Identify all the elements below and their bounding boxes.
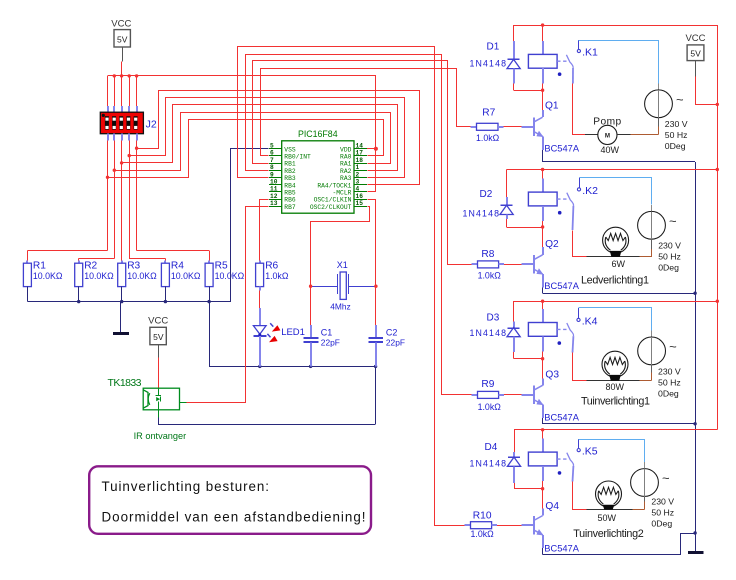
- svg-text:12: 12: [270, 193, 278, 200]
- svg-text:6: 6: [270, 150, 274, 157]
- wire collector Q1: [542, 90, 544, 110]
- svg-text:BC547A: BC547A: [544, 281, 579, 291]
- svg-text:10.0KΩ: 10.0KΩ: [33, 271, 63, 281]
- svg-text:1.0kΩ: 1.0kΩ: [476, 133, 500, 143]
- junction coil bottom block 4: [541, 487, 544, 490]
- wire PIC OSC2 to crystal left node: [311, 207, 370, 287]
- svg-text:18: 18: [356, 157, 364, 164]
- svg-text:1.0kΩ: 1.0kΩ: [478, 270, 502, 280]
- note box Tuinverlichting besturen: [89, 466, 371, 534]
- svg-text:230 V: 230 V: [665, 119, 688, 129]
- resistor R4 10.0KOhm: [164, 261, 166, 264]
- svg-text:0Deg: 0Deg: [651, 519, 672, 529]
- wire VCC3 to right rail: [696, 77, 718, 105]
- svg-text:VCC: VCC: [685, 33, 705, 44]
- resistor R1 10.0KOhm: [26, 261, 28, 264]
- svg-text:Doormiddel van een afstandbedi: Doormiddel van een afstandbediening!: [102, 510, 366, 525]
- svg-text:PIC16F84: PIC16F84: [298, 129, 338, 139]
- svg-text:230 V: 230 V: [658, 367, 681, 377]
- junction VDD: [374, 147, 378, 151]
- wire DIP pin3 to R3: [121, 141, 123, 261]
- PIC pin 14 VDD: [354, 148, 367, 150]
- svg-text:BC547A: BC547A: [544, 543, 579, 553]
- wire DIP pin5 to R5 and RA0-bundle junction: [136, 141, 138, 251]
- svg-text:Ledverlichting1: Ledverlichting1: [581, 275, 649, 287]
- svg-text:OSC1/CLKIN: OSC1/CLKIN: [314, 197, 352, 204]
- TK1833 output pin: [180, 402, 187, 404]
- svg-text:X1: X1: [337, 260, 348, 270]
- svg-text:5V: 5V: [153, 332, 164, 342]
- junction VCC3 rail: [716, 103, 719, 106]
- PIC pin 12 RB6: [269, 199, 282, 201]
- svg-text:R10: R10: [473, 510, 492, 521]
- wire DIP pin4 to R4: [129, 141, 131, 259]
- resistor R7 1.0kOhm: [470, 126, 476, 128]
- svg-text:RA1: RA1: [340, 161, 352, 168]
- relay coil K block 2: [542, 170, 544, 179]
- svg-text:Pomp: Pomp: [593, 117, 621, 128]
- wire PIC RB1 to R8: [253, 61, 472, 265]
- PIC pin 18 RA1: [354, 163, 367, 165]
- junction DIP5: [135, 147, 138, 150]
- svg-text:1N4148: 1N4148: [470, 59, 507, 69]
- svg-text:0Deg: 0Deg: [665, 141, 686, 151]
- svg-text:VCC: VCC: [148, 315, 168, 326]
- PIC pin 2 RA3: [354, 177, 367, 179]
- resistor R6 1.0kOhm: [259, 261, 261, 264]
- svg-text:RB2: RB2: [284, 168, 296, 175]
- wire ground bus block 1: [543, 161, 696, 163]
- svg-text:LED1: LED1: [281, 327, 305, 338]
- svg-text:D1: D1: [487, 42, 500, 53]
- relay coil K block 3: [542, 301, 544, 309]
- svg-text:-MCLR: -MCLR: [332, 190, 351, 197]
- switch terminal circle K block 1: [577, 49, 580, 52]
- wire DIP top pins verticals: [107, 76, 109, 106]
- transistor Q1 BC547A: [533, 118, 535, 137]
- svg-text:~: ~: [669, 339, 677, 354]
- wire switch to AC source (cyan) block 1: [578, 40, 580, 49]
- svg-text:Tuinverlichting1: Tuinverlichting1: [581, 396, 650, 408]
- svg-text:0Deg: 0Deg: [658, 389, 679, 399]
- svg-text:D3: D3: [487, 313, 500, 324]
- wire lower ground rail y=366.4: [209, 366, 376, 368]
- svg-text:VDD: VDD: [340, 146, 352, 153]
- svg-text:R9: R9: [481, 379, 494, 390]
- DIP switch windows: [105, 116, 109, 129]
- junction dots ground rail: [77, 300, 80, 303]
- svg-text:R8: R8: [481, 249, 494, 260]
- wire bundle DIP1 to PIC RA0: [108, 120, 384, 178]
- wire DIP bottom pins stubs: [107, 134, 109, 141]
- relay switch K5 block 4: [557, 458, 567, 460]
- svg-text:5V: 5V: [690, 49, 701, 59]
- svg-text:IR ontvanger: IR ontvanger: [134, 431, 187, 441]
- wire switch to AC source (cyan) block 3: [578, 308, 580, 318]
- wire TK1833 ground to lower rail: [158, 410, 160, 418]
- svg-text:.K5: .K5: [582, 446, 598, 458]
- svg-text:RA2: RA2: [340, 168, 352, 175]
- relay switch K1 block 1: [557, 60, 567, 62]
- svg-text:Q4: Q4: [545, 501, 559, 512]
- wire relay supply top rail: [514, 26, 718, 430]
- wire ground bus block 4: [543, 534, 696, 555]
- junction DIP4: [128, 154, 131, 157]
- svg-text:40W: 40W: [601, 145, 620, 155]
- svg-text:4Mhz: 4Mhz: [330, 302, 350, 312]
- wire motor to AC source: [617, 134, 630, 136]
- wire emitter ground bus vertical: [695, 162, 697, 533]
- wire ground rail y=301.6: [27, 301, 230, 303]
- svg-text:1N4148: 1N4148: [470, 459, 507, 469]
- svg-text:16: 16: [356, 193, 364, 200]
- resistor R2 10.0KOhm: [78, 261, 80, 264]
- svg-text:VSS: VSS: [284, 146, 296, 153]
- PIC pin 4 -MCLR: [354, 191, 367, 193]
- junction coil bottom block 2: [541, 225, 544, 228]
- PIC pin 11 RB5: [269, 191, 282, 193]
- svg-text:15: 15: [356, 200, 364, 207]
- switch pivot dot block 3: [558, 341, 562, 345]
- svg-text:1N4148: 1N4148: [463, 209, 500, 219]
- svg-text:230 V: 230 V: [651, 497, 674, 507]
- wire switch bottom to load block 2: [572, 206, 575, 230]
- wire R6 to LED1: [259, 290, 261, 308]
- wire bundle DIP2 to PIC RA1: [115, 113, 391, 171]
- wire switch bottom to load block 4: [572, 466, 575, 482]
- wire collector Q2: [542, 227, 544, 247]
- capacitor C2 22pF: [375, 286, 377, 325]
- svg-text:Q1: Q1: [545, 101, 559, 112]
- ground GND1: [120, 302, 122, 333]
- PIC pin 17 RA0: [354, 155, 367, 157]
- junction dots ground bus: [693, 292, 696, 295]
- wire AC source bottom block 3: [651, 365, 653, 373]
- resistor R8 1.0kOhm: [471, 263, 477, 265]
- svg-text:C2: C2: [386, 327, 398, 337]
- relay coil K block 4: [542, 430, 544, 439]
- svg-text:6W: 6W: [612, 259, 626, 269]
- wire VCC rail y=75.4: [108, 75, 376, 77]
- capacitor C1 22pF: [310, 286, 312, 325]
- junction coil top block 2: [541, 168, 544, 171]
- svg-text:.K2: .K2: [582, 185, 598, 197]
- lamp 50W block 4: [573, 509, 587, 511]
- wire collector Q4: [542, 489, 544, 509]
- PIC pin 15 OSC2/CLKOUT: [354, 206, 367, 208]
- svg-text:17: 17: [356, 150, 364, 157]
- transistor Q4 BC547A: [533, 516, 535, 535]
- resistor R3 10.0KOhm: [121, 261, 123, 264]
- svg-text:0Deg: 0Deg: [658, 263, 679, 273]
- wire VCC rail to VDD and -MCLR: [368, 76, 376, 192]
- resistor R9 1.0kOhm: [471, 394, 477, 396]
- svg-text:~: ~: [676, 92, 684, 107]
- svg-text:1.0kΩ: 1.0kΩ: [478, 402, 502, 412]
- wire TK1833 output to PIC RB7: [187, 207, 269, 403]
- junction dots right rail: [541, 23, 544, 26]
- AC source V3 230V: [638, 337, 666, 365]
- svg-text:RB7: RB7: [284, 204, 296, 211]
- svg-text:8: 8: [270, 164, 274, 171]
- svg-text:22pF: 22pF: [386, 337, 405, 347]
- junction coil top block 3: [541, 300, 544, 303]
- svg-text:1N4148: 1N4148: [470, 328, 507, 338]
- svg-text:13: 13: [270, 200, 278, 207]
- PIC pin 7 RB1: [269, 163, 282, 165]
- svg-text:1.0kΩ: 1.0kΩ: [265, 271, 289, 281]
- svg-text:Q2: Q2: [545, 239, 559, 250]
- wire AC source bottom block 1: [658, 118, 660, 127]
- svg-text:VCC: VCC: [111, 18, 131, 29]
- wire PIC RB0 to R7: [261, 69, 471, 156]
- junction dots lower rail: [258, 365, 261, 368]
- svg-text:RB6: RB6: [284, 197, 296, 204]
- svg-text:C1: C1: [321, 327, 333, 337]
- relay coil K block 1: [542, 25, 544, 41]
- LED LED1: [253, 325, 266, 327]
- svg-text:50 Hz: 50 Hz: [651, 508, 674, 518]
- svg-text:50 Hz: 50 Hz: [658, 378, 681, 388]
- wire PIC RB6 to R6: [260, 200, 269, 261]
- svg-text:J2: J2: [146, 118, 157, 130]
- wire emitter Q1 to ground bus: [542, 136, 544, 149]
- wire relay rail block 4: [514, 429, 717, 431]
- switch pivot dot block 4: [558, 471, 562, 475]
- wire emitter Q4 to ground bus: [542, 535, 544, 548]
- wire VCC2 to TK1833: [158, 358, 160, 389]
- wire DIP pin2 to R2: [114, 141, 116, 259]
- svg-text:RB3: RB3: [284, 175, 296, 182]
- svg-text:10.0KΩ: 10.0KΩ: [215, 271, 245, 281]
- wire VDD pin to rail vertical: [367, 148, 376, 150]
- motor M1 Pomp 40W: [585, 134, 598, 136]
- wire ground bus block 2: [543, 293, 696, 295]
- diode D1 1N4148: [513, 25, 515, 41]
- svg-text:14: 14: [356, 143, 364, 150]
- wire PIC OSC1 to crystal right node: [368, 200, 376, 287]
- svg-text:10.0KΩ: 10.0KΩ: [171, 271, 201, 281]
- wire bundle DIP5 to PIC RA4: [137, 91, 420, 185]
- wire switch to AC source (cyan) block 4: [578, 439, 580, 448]
- svg-text:RA4/TOCK1: RA4/TOCK1: [317, 182, 351, 189]
- svg-text:M: M: [605, 133, 610, 140]
- resistor R5 10.0KOhm: [208, 261, 210, 264]
- lamp 6W block 2: [573, 256, 587, 258]
- svg-text:Q3: Q3: [545, 369, 559, 380]
- diode D3 1N4148: [513, 301, 515, 321]
- svg-text:RA3: RA3: [340, 175, 352, 182]
- transistor Q3 BC547A: [533, 386, 535, 405]
- ground GND2 (bottom right): [695, 533, 697, 552]
- svg-text:11: 11: [270, 186, 278, 193]
- junction DIP1: [106, 176, 109, 179]
- PIC pin 6 RB0/INT: [269, 155, 282, 157]
- junction crystal right: [374, 285, 377, 288]
- svg-text:BC547A: BC547A: [544, 413, 579, 423]
- wire bundle DIP4 to PIC RA3: [130, 98, 405, 178]
- junction DIP2: [113, 169, 116, 172]
- wire relay rail block 2: [507, 169, 718, 171]
- PIC pin 13 RB7: [269, 206, 282, 208]
- wire VCC1 to rail: [121, 61, 123, 75]
- wire PIC RB2 to R9: [246, 55, 472, 395]
- wire AC source bottom block 2: [651, 239, 653, 249]
- svg-text:3: 3: [356, 179, 360, 186]
- svg-text:~: ~: [662, 471, 670, 486]
- AC source V1 230V: [645, 90, 673, 118]
- wire R5 bottom to lower rail: [209, 302, 211, 367]
- AC source V2 230V: [638, 211, 666, 239]
- wire D1 bottom to coil bottom: [514, 90, 543, 92]
- junction coil bottom block 1: [541, 89, 544, 92]
- relay switch K4 block 3: [557, 328, 567, 330]
- svg-text:RB0/INT: RB0/INT: [284, 154, 311, 161]
- svg-text:TK1833: TK1833: [108, 377, 142, 389]
- svg-text:RB5: RB5: [284, 190, 296, 197]
- transistor Q2 BC547A: [533, 255, 535, 274]
- PIC pin 9 RB3: [269, 177, 282, 179]
- svg-text:Tuinverlichting2: Tuinverlichting2: [573, 528, 644, 540]
- wire bundle DIP3 to PIC RA2: [122, 105, 398, 171]
- svg-text:5: 5: [270, 143, 274, 150]
- PIC pin 3 RA4/TOCK1: [354, 184, 367, 186]
- relay switch K2 block 2: [557, 198, 567, 200]
- switch terminal circle K block 4: [577, 449, 580, 452]
- svg-text:BC547A: BC547A: [544, 144, 579, 154]
- svg-text:RB4: RB4: [284, 182, 296, 189]
- svg-text:50 Hz: 50 Hz: [658, 252, 681, 262]
- svg-text:RA0: RA0: [340, 154, 352, 161]
- svg-text:Tuinverlichting besturen:: Tuinverlichting besturen:: [102, 479, 270, 494]
- PIC pin 16 OSC1/CLKIN: [354, 199, 367, 201]
- svg-text:7: 7: [270, 157, 274, 164]
- switch pivot dot block 2: [558, 211, 562, 215]
- junction crystal left: [309, 285, 312, 288]
- wire switch to AC source (cyan) block 2: [579, 177, 581, 187]
- svg-text:4: 4: [356, 186, 360, 193]
- lamp 80W block 3: [573, 380, 587, 382]
- PIC pin 5 VSS: [269, 148, 282, 150]
- PIC pin 10 RB4: [269, 184, 282, 186]
- svg-text:1: 1: [356, 164, 360, 171]
- svg-text:D2: D2: [480, 189, 493, 200]
- PIC pin 8 RB2: [269, 170, 282, 172]
- wire VSS to ground rail: [231, 149, 269, 302]
- wire switch bottom to load block 1: [572, 68, 574, 84]
- junction coil bottom block 3: [541, 357, 544, 360]
- wire AC source bottom block 4: [644, 496, 646, 501]
- PIC pin 1 RA2: [354, 170, 367, 172]
- svg-text:.K4: .K4: [582, 316, 598, 328]
- LED1 arrows: [267, 323, 280, 342]
- svg-text:OSC2/CLKOUT: OSC2/CLKOUT: [310, 204, 352, 211]
- svg-text:10.0KΩ: 10.0KΩ: [127, 271, 157, 281]
- svg-text:D4: D4: [485, 442, 498, 453]
- wire D3 bottom to coil bottom: [514, 358, 543, 360]
- svg-text:230 V: 230 V: [658, 241, 681, 251]
- svg-text:50W: 50W: [598, 513, 617, 523]
- TK1833 internal photodiode: [156, 397, 160, 401]
- wire emitter Q2 to ground bus: [542, 274, 544, 287]
- wire ground bus block 3: [543, 423, 696, 425]
- svg-text:80W: 80W: [606, 382, 625, 392]
- AC source V4 230V: [631, 469, 659, 497]
- DIP switch J2 body: [100, 112, 143, 134]
- switch terminal circle K block 3: [577, 318, 580, 321]
- junction dots on VCC rail: [113, 74, 116, 77]
- wire PIC RB3 to R10: [238, 47, 465, 526]
- diode D2 1N4148: [506, 170, 508, 197]
- svg-text:5V: 5V: [117, 35, 128, 45]
- wire relay rail block 3: [514, 301, 718, 303]
- diode D4 1N4148: [514, 430, 516, 452]
- svg-text:2: 2: [356, 171, 360, 178]
- svg-text:1.0kΩ: 1.0kΩ: [471, 529, 495, 539]
- svg-text:50 Hz: 50 Hz: [665, 130, 688, 140]
- DIP pin1 marker dot: [102, 114, 105, 117]
- wire D2 bottom to coil bottom: [507, 227, 543, 229]
- svg-text:10.0KΩ: 10.0KΩ: [84, 271, 114, 281]
- wire emitter Q3 to ground bus: [542, 405, 544, 418]
- svg-text:.K1: .K1: [582, 47, 598, 59]
- svg-text:22pF: 22pF: [321, 337, 340, 347]
- svg-text:RB1: RB1: [284, 161, 296, 168]
- svg-text:R7: R7: [482, 108, 495, 119]
- junction coil top block 4: [541, 428, 544, 431]
- switch terminal circle K block 2: [577, 188, 580, 191]
- junction DIP3: [120, 161, 123, 164]
- wire collector Q3: [542, 359, 544, 379]
- svg-text:10: 10: [270, 179, 278, 186]
- wire D4 bottom to coil bottom: [514, 488, 543, 490]
- switch pivot dot block 1: [558, 72, 562, 76]
- svg-text:9: 9: [270, 171, 274, 178]
- svg-text:~: ~: [669, 213, 677, 228]
- wire DIP pin1 to R1: [107, 141, 109, 251]
- resistor R10 1.0kOhm: [464, 524, 470, 526]
- wire switch bottom to load block 3: [572, 336, 575, 352]
